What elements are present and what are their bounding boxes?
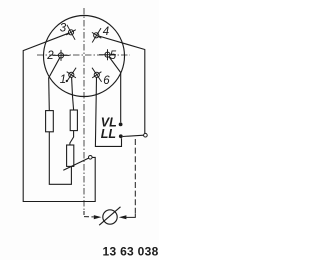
svg-text:13 63 038: 13 63 038 — [103, 245, 159, 259]
mechanical linkage dashed (centerline to actuator) — [84, 211, 94, 217]
pin 3 — [66, 25, 76, 40]
contact VL (node) — [119, 123, 123, 127]
svg-text:LL: LL — [101, 127, 116, 141]
wire R1 bottom to rheostat R3 bottom — [49, 132, 71, 185]
switch wiper (LL to common) — [123, 135, 144, 136]
svg-text:2: 2 — [46, 50, 54, 62]
svg-text:1: 1 — [60, 74, 66, 86]
svg-text:3: 3 — [60, 23, 67, 35]
connector housing circle — [44, 16, 125, 97]
wire pin3 to bottom-left rail and wiper contact — [23, 33, 95, 201]
pin 4 label — [103, 26, 109, 38]
linkage arrow right — [119, 215, 127, 219]
rheostat R3 — [67, 145, 74, 166]
wiper arm of rheostat R3 — [63, 158, 88, 170]
wire pin4 to switch common — [99, 36, 145, 133]
pin 3 label — [60, 23, 67, 35]
part number 13 63 038 — [103, 245, 159, 259]
wire pin6 to contact LL — [95, 77, 121, 146]
centerline vertical — [83, 8, 85, 211]
resistor R2 — [70, 110, 77, 131]
pin 2 label — [46, 50, 54, 62]
contact LL (node) — [119, 134, 123, 138]
label VL — [101, 116, 117, 130]
pin 2 — [53, 50, 70, 61]
centerline horizontal (through pins 2 and 5) — [37, 54, 130, 56]
pin 1 — [67, 68, 77, 82]
resistor R1 — [46, 111, 54, 132]
wire pin5 to contact VL — [109, 57, 121, 122]
wire pin2 to resistor R1 — [49, 58, 60, 111]
svg-text:4: 4 — [103, 26, 109, 38]
switch common contact (open circle) — [144, 133, 148, 137]
wire R2 bottom to rheostat R3 top — [70, 131, 74, 145]
wiper contact node (open circle) — [89, 156, 93, 160]
pin 6 — [92, 68, 102, 82]
svg-text:6: 6 — [103, 75, 110, 87]
linkage arrow left — [94, 215, 102, 219]
wire pin1 to resistor R2 — [72, 77, 74, 110]
pin 4 — [92, 28, 101, 42]
mechanical linkage dashed (switch to actuator) — [126, 139, 135, 217]
pin 6 label — [103, 75, 110, 87]
pin 5 — [99, 49, 116, 60]
label LL — [101, 127, 116, 141]
throttle actuator symbol — [99, 207, 120, 225]
pin 5 label — [110, 50, 117, 62]
pin 1 label — [60, 74, 68, 86]
